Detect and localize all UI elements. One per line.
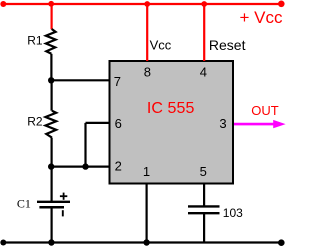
node top rail left end bbox=[0, 1, 6, 7]
C1 minus polarity mark bbox=[62, 210, 64, 216]
node junction C1/ground bbox=[48, 239, 54, 245]
C1 plus polarity mark bbox=[60, 193, 67, 200]
svg-text:OUT: OUT bbox=[251, 103, 278, 118]
node B junction R2/C1/pin2 bbox=[48, 163, 54, 169]
resistor R2 bbox=[46, 111, 57, 138]
wire node A to pin 7 bbox=[51, 79, 110, 81]
svg-text:C1: C1 bbox=[17, 197, 31, 211]
svg-text:103: 103 bbox=[223, 206, 243, 220]
wire Vcc rail to R1 bbox=[50, 4, 52, 29]
capacitor C1 bottom plate bbox=[39, 206, 64, 209]
svg-text:1: 1 bbox=[143, 164, 150, 179]
svg-text:Reset: Reset bbox=[209, 37, 246, 53]
capacitor C2 bottom plate bbox=[188, 212, 220, 214]
svg-text:2: 2 bbox=[115, 159, 122, 174]
wire node B to pin 2 bbox=[51, 166, 110, 168]
svg-text:8: 8 bbox=[144, 65, 151, 80]
OUT arrowhead bbox=[273, 120, 285, 128]
wire +Vcc top rail bbox=[3, 3, 281, 5]
node C junction pin2/pin6 wire bbox=[82, 163, 88, 169]
wire pin 1 to ground bbox=[146, 184, 148, 243]
wire R2 to node B bbox=[50, 138, 52, 167]
wire node C up to pin 6 level bbox=[84, 123, 86, 167]
node A junction R1/R2/pin7 bbox=[48, 77, 54, 83]
node ground rail right end bbox=[278, 239, 285, 246]
wire Vcc rail to pin 8 bbox=[146, 4, 148, 61]
node ground rail left end bbox=[0, 240, 6, 246]
wire R1 to node A bbox=[50, 54, 52, 81]
node junction above pin 4 bbox=[201, 1, 207, 7]
wire node A to R2 bbox=[50, 80, 52, 110]
svg-text:R2: R2 bbox=[27, 115, 43, 129]
svg-text:6: 6 bbox=[115, 116, 122, 131]
wire OUT arrow shaft bbox=[234, 123, 275, 126]
IC 555 U1 body bbox=[110, 61, 234, 184]
svg-text:4: 4 bbox=[200, 65, 207, 80]
wire Vcc rail to pin 4 bbox=[203, 4, 205, 61]
svg-text:7: 7 bbox=[114, 74, 121, 89]
capacitor C1 top plate bbox=[37, 201, 70, 203]
svg-text:5: 5 bbox=[200, 164, 207, 179]
node junction above R1 bbox=[48, 1, 54, 7]
wire node B to C1 bbox=[50, 167, 52, 202]
svg-text:3: 3 bbox=[219, 116, 226, 131]
node top rail right end bbox=[278, 1, 285, 8]
wire pin 5 to C2 bbox=[203, 184, 205, 207]
svg-text:Vcc: Vcc bbox=[150, 38, 172, 53]
capacitor C2 top plate bbox=[188, 205, 220, 207]
resistor R1 bbox=[46, 29, 56, 54]
wire C2 to ground bbox=[203, 213, 205, 242]
svg-text:IC 555: IC 555 bbox=[147, 100, 195, 117]
wire ground rail bbox=[3, 241, 281, 243]
wire to pin 6 bbox=[86, 122, 111, 124]
node junction above pin 8 bbox=[144, 1, 150, 7]
svg-text:+ Vcc: + Vcc bbox=[240, 8, 283, 27]
svg-text:R1: R1 bbox=[27, 34, 43, 48]
wire C1 to ground rail bbox=[50, 208, 52, 243]
node junction pin1/ground bbox=[143, 239, 149, 245]
